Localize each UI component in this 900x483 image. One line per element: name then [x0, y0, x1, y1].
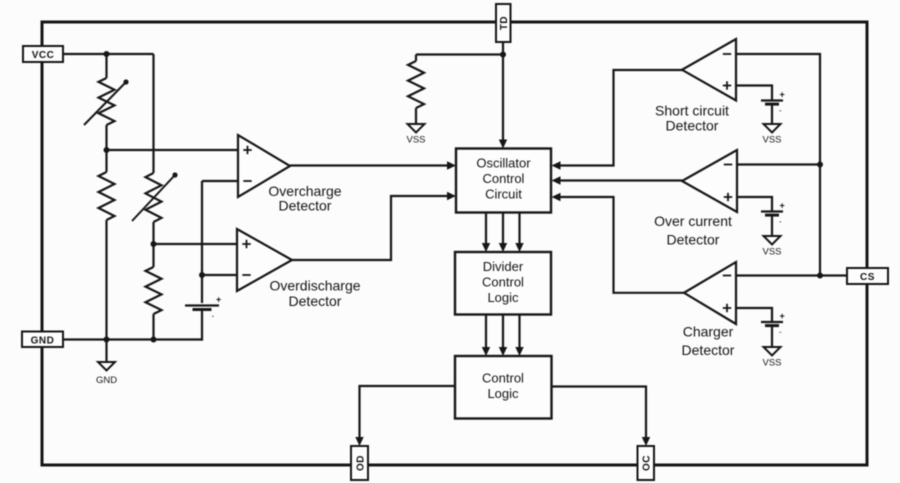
wire VCC rail [63, 53, 154, 55]
wire divider to control x=519.5 [518, 315, 520, 348]
svg-text:VSS: VSS [762, 247, 781, 258]
svg-text:-: - [779, 217, 782, 226]
wire battery B1 to GND rail [201, 309, 203, 341]
junction reference node [199, 272, 205, 278]
resistor R5 (to VSS) [408, 61, 424, 108]
wire R4 top lead [152, 244, 154, 267]
pin TD [496, 4, 511, 42]
power symbol VSS (U3) [764, 124, 781, 133]
wire U2 output to oscillator [292, 196, 448, 260]
wire B3 to VSS [771, 215, 773, 236]
svg-text:+: + [780, 90, 785, 100]
wire divider to control x=486 [485, 315, 487, 348]
wire control logic to OD pin [360, 386, 456, 438]
node B junction [151, 241, 157, 247]
junction GND rail x=106 [104, 337, 110, 343]
op-amp U2 Overdischarge Detector [237, 229, 292, 291]
power symbol VSS (U4) [764, 236, 781, 245]
thermistor R1 (adjustable, top-left) [99, 78, 115, 125]
svg-text:Detector: Detector [289, 293, 342, 309]
pin VCC [23, 46, 63, 62]
battery B4 reference [761, 321, 783, 323]
wire node B to overdischarge + input [154, 243, 238, 245]
wire second column x=153.5 from VCC rail [152, 54, 154, 173]
op-amp U4 Over current Detector [682, 150, 737, 212]
wire U4 + input to reference [737, 197, 772, 211]
wire U4 - input to sense line [737, 163, 820, 165]
wire oscillator to divider x=503 [502, 213, 504, 244]
wire U4 output to oscillator [559, 179, 682, 181]
svg-text:VCC: VCC [32, 50, 55, 61]
svg-text:Detector: Detector [667, 232, 720, 248]
wire control logic to OC pin [552, 387, 647, 438]
wire TD to oscillator top [502, 42, 504, 141]
svg-text:Control: Control [482, 275, 524, 290]
wire TD node horizontal [416, 53, 503, 55]
wire U1 output to oscillator [290, 164, 448, 166]
pin OC [638, 446, 655, 480]
svg-text:GND: GND [31, 336, 55, 347]
svg-text:Detector: Detector [682, 342, 735, 358]
wire GND stub [105, 340, 107, 363]
wire reference column x=202 [201, 181, 203, 303]
wire GND rail [63, 338, 203, 340]
battery B1 reference cell [185, 304, 219, 306]
wire oscillator to divider x=486 [485, 213, 487, 244]
wire B4 to VSS [771, 326, 773, 347]
pin CS [847, 268, 888, 284]
battery B2 reference [761, 99, 783, 101]
wire left column x=106 top lead [105, 54, 107, 78]
op-amp U3 Short circuit Detector [682, 39, 736, 101]
svg-text:Short circuit: Short circuit [655, 102, 729, 118]
wire R5 bottom lead [415, 108, 417, 124]
wire oscillator to divider x=519.5 [518, 213, 520, 244]
junction VCC rail x=106 [104, 51, 110, 57]
svg-text:Control: Control [482, 371, 524, 386]
power symbol VSS (U5) [764, 347, 781, 356]
wire U3 - input to sense line [736, 54, 820, 164]
battery B3 reference [761, 210, 783, 212]
svg-text:CS: CS [860, 272, 875, 283]
wire node A to overcharge + input [107, 149, 239, 151]
resistor R4 [146, 267, 162, 314]
svg-text:OC: OC [642, 455, 653, 471]
wire sense line vertical segment [819, 164, 821, 276]
svg-text:VSS: VSS [762, 135, 781, 146]
wire R2 top lead [105, 150, 107, 172]
wire B2 to VSS [771, 104, 773, 124]
junction sense line / U4 [817, 162, 823, 168]
svg-text:Charger: Charger [683, 323, 734, 339]
wire U5 + input to reference [736, 308, 772, 322]
wire to overcharge - input [202, 180, 238, 182]
op-amp U1 Overcharge Detector [238, 135, 290, 197]
op-amp U5 Charger Detector [684, 262, 736, 324]
wire U3 + input to reference [736, 86, 772, 100]
resistor R2 [99, 172, 115, 220]
svg-text:-: - [779, 328, 782, 337]
svg-text:Logic: Logic [487, 386, 519, 401]
wire U5 - input / CS sense [736, 274, 847, 276]
svg-text:Divider: Divider [483, 259, 524, 274]
svg-text:OD: OD [355, 455, 366, 471]
svg-text:Oscillator: Oscillator [476, 156, 531, 171]
wire node A lead [105, 125, 107, 150]
wire divider to control x=503 [502, 315, 504, 348]
wire U5 output to oscillator (up left) [559, 197, 684, 293]
junction sense line / CS [817, 273, 823, 279]
power symbol VSS (top) [408, 124, 425, 133]
wire U3 output to oscillator (down left) [559, 70, 682, 166]
node A junction [104, 147, 110, 153]
svg-text:VSS: VSS [406, 135, 425, 146]
wire R4 bottom to GND rail [152, 314, 154, 339]
svg-text:TD: TD [499, 16, 510, 30]
wire R2 bottom to GND rail [105, 220, 107, 339]
svg-text:+: + [780, 311, 785, 321]
svg-text:Detector: Detector [279, 198, 332, 214]
svg-text:Over current: Over current [654, 213, 732, 229]
wire to overdischarge - input [202, 274, 237, 276]
svg-text:-: - [779, 106, 782, 115]
svg-text:+: + [216, 295, 221, 305]
wire R5 top lead [415, 55, 417, 62]
svg-text:Detector: Detector [666, 118, 719, 134]
pin OD [351, 446, 368, 480]
pin GND [22, 332, 63, 348]
svg-text:Overdischarge: Overdischarge [269, 278, 360, 294]
svg-text:Control: Control [483, 171, 525, 186]
wire node B lead [152, 222, 154, 244]
svg-text:-: - [212, 312, 215, 321]
block Control Logic [455, 356, 552, 419]
thermistor R3 (adjustable, second column) [146, 173, 162, 222]
block Divider Control Logic [455, 252, 551, 315]
junction GND rail x=153 [151, 337, 157, 343]
svg-text:Circuit: Circuit [485, 187, 522, 202]
svg-text:GND: GND [96, 375, 117, 386]
svg-text:Logic: Logic [487, 290, 519, 305]
node TD junction [500, 52, 506, 58]
svg-text:VSS: VSS [762, 358, 781, 369]
ground symbol GND [98, 362, 115, 371]
svg-text:+: + [780, 201, 785, 211]
block Oscillator Control Circuit [456, 149, 551, 213]
